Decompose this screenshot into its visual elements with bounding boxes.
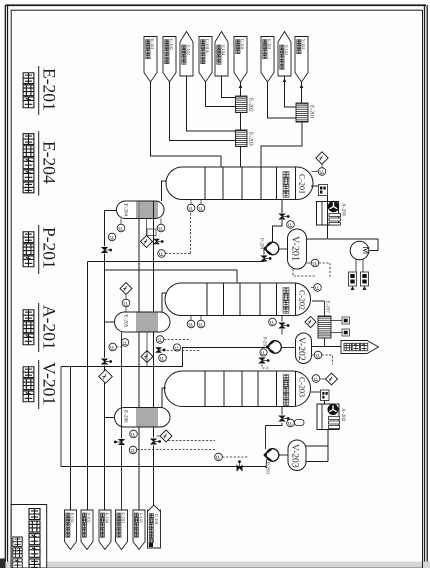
svg-text:P-203: P-203 [265, 462, 271, 474]
diamond near x104 line [99, 370, 113, 384]
svg-text:C-202: C-202 [298, 290, 307, 310]
page edge strip bottom [0, 559, 430, 569]
valve on x104 line [101, 247, 112, 253]
svg-text:V-103: V-103 [284, 45, 289, 56]
stream tag C-101 (bottom rect) [148, 505, 161, 548]
pump P-202 [262, 337, 296, 354]
reboiler E-206 [115, 408, 170, 428]
svg-text:C-201: C-201 [298, 174, 307, 194]
svg-text:V-201: V-201 [40, 362, 60, 405]
wire hot stream vertical A [138, 201, 140, 548]
instrument bubble under diamond [122, 299, 130, 312]
diamond assembly bottom [129, 430, 249, 461]
valve above P-201 [279, 214, 290, 220]
C-203 bottom valve [266, 407, 305, 450]
air cooler A-201 [317, 201, 347, 225]
valve bottom tag7 [150, 439, 161, 445]
wire tag6 to E-202 top [239, 82, 243, 96]
svg-text:E-205: E-205 [123, 315, 129, 328]
svg-text:C-101A: C-101A [205, 39, 210, 54]
wire E-204 return to C-201 [162, 181, 167, 201]
compressor M [350, 241, 371, 260]
wire E-205 inlet left [105, 321, 115, 323]
svg-text:V-104: V-104 [221, 45, 226, 56]
valve on x154 line [0, 0, 1, 1]
stream tag E-101 (top, tip down) [144, 37, 157, 83]
wire tag9 to E-201 top [300, 82, 304, 103]
svg-text:E-202: E-202 [248, 98, 254, 112]
equipment list entry E-201 [23, 66, 59, 115]
column C-203 [165, 371, 311, 407]
svg-text:C-101: C-101 [240, 39, 245, 50]
wire tag3 to E-203 upper [187, 76, 236, 131]
stream tag S-102 (bottom) [81, 510, 93, 550]
exchanger E-201 [296, 103, 315, 122]
air cooler A-202 [317, 404, 346, 430]
diamond at C-202 overhead [305, 316, 316, 327]
wire x133 to tag [0, 0, 1, 1]
exchanger E-203 [236, 130, 254, 147]
svg-text:E-206: E-206 [123, 410, 129, 423]
wire tag2 to E-203 [170, 82, 236, 141]
svg-text:C-203: C-203 [298, 377, 307, 397]
instrument circle near P-202 [260, 349, 267, 356]
svg-text:V-105: V-105 [138, 513, 143, 524]
wire tag4 to E-202 lower [206, 82, 236, 107]
dashed mid1 [158, 213, 191, 258]
instrument bubbles under E-204 [117, 219, 165, 236]
svg-text:V-202: V-202 [296, 337, 307, 361]
stream tag V-104 (top, tip up) [215, 32, 228, 77]
stream tag V-101 (top, tip up) [180, 32, 193, 77]
wire C-202 feed line [105, 270, 238, 283]
svg-text:E-204: E-204 [40, 141, 60, 184]
stream tag V-101 (top, tip down) [295, 37, 308, 83]
wire tag1 to C-201 top [151, 82, 222, 167]
C-202 bottoms valve [269, 316, 290, 335]
wire bottom tag6 [0, 0, 1, 1]
instrument near C-203 left [156, 336, 190, 344]
wire pump P-201 discharge long line [88, 262, 265, 511]
reflux drum V-203 [288, 440, 306, 471]
wire E-206 return to C-203 [162, 388, 166, 408]
svg-text:E-101: E-101 [70, 513, 75, 524]
title text unit name [29, 509, 40, 570]
column C-201 label [283, 167, 306, 200]
svg-text:C-101: C-101 [154, 514, 159, 525]
svg-text:A-201: A-201 [40, 305, 60, 350]
V-202 level bubble [312, 351, 333, 364]
instrument bubble at C-201 cap [312, 168, 326, 176]
instrument bubble left of E-204 [108, 233, 116, 241]
M utility tag left [349, 260, 357, 291]
stream tag E-101 (bottom) [65, 510, 77, 550]
instrument bubbles under C-201 [187, 200, 205, 212]
V-201 level bubble [307, 259, 331, 277]
svg-text:V-201: V-201 [290, 236, 301, 261]
wire utility vertical to tag [104, 211, 106, 511]
wire P-203 discharge long line [61, 367, 266, 467]
stream tag V-103 (top, tip up) [278, 32, 291, 77]
wire E-201 bottom to C-201 top [261, 122, 302, 167]
reflux drum V-202 [296, 333, 312, 364]
wire V-203 right line [306, 445, 328, 447]
pump P-201 [259, 238, 288, 255]
stream tag C-101 (bottom) [116, 510, 128, 550]
stream tag V-105 (bottom) [133, 510, 145, 550]
wire E-202 to E-203 to C-201 [240, 113, 242, 168]
column C-201 [166, 167, 313, 200]
column C-202 label [283, 283, 306, 316]
instrument bubbles under C-202 [187, 316, 205, 328]
diamond left of C-202 [120, 283, 132, 300]
equipment list entry E-204 [23, 131, 59, 196]
svg-text:P-202: P-202 [262, 337, 268, 349]
valve x104 lower [101, 359, 112, 365]
valve on P-203 line [237, 460, 243, 471]
title text author [13, 537, 22, 568]
wire C-201 bottoms to P-201 [273, 200, 283, 243]
wire tag7 to E-201 lower [268, 82, 297, 118]
svg-text:E-101: E-101 [267, 39, 272, 50]
diamond above C-201 cap [316, 152, 328, 168]
equipment list entry V-201 [23, 360, 59, 409]
wire P-202 discharge to left [61, 344, 269, 510]
wire E-204 inlet left [105, 210, 117, 212]
wire P-201 discharge w/ valve [263, 249, 265, 263]
diamond assembly mid1 [141, 219, 164, 248]
wire E-206 inlet left [105, 417, 115, 419]
wire A-201 to V-201 [307, 196, 328, 239]
svg-text:C-102: C-102 [169, 39, 174, 50]
reboiler E-204 [117, 201, 164, 219]
diamond at C-203 cap [320, 373, 338, 385]
svg-text:V-203: V-203 [290, 444, 301, 468]
exchanger E-202 [236, 96, 254, 113]
hatched exchanger at C-202 overhead [312, 301, 331, 347]
svg-text:A-202: A-202 [340, 408, 346, 422]
svg-text:E-101: E-101 [150, 39, 155, 50]
column C-203 label [283, 371, 306, 407]
wire C-201 overhead to A-201 [311, 185, 328, 196]
stream tag C-101A (top, tip down) [199, 37, 212, 83]
V-201 bottom dashed [293, 269, 315, 276]
svg-text:E-104: E-104 [104, 513, 109, 524]
svg-text:E-201: E-201 [40, 68, 60, 111]
M utility tag right [361, 260, 369, 291]
instrument bubble at C-203 cap [312, 375, 320, 383]
svg-text:P-201: P-201 [40, 227, 60, 269]
svg-text:E-201: E-201 [309, 105, 315, 119]
exchanger side tags [331, 317, 350, 336]
svg-text:C-101: C-101 [121, 513, 126, 524]
reboiler E-205 [115, 312, 171, 332]
wire hot stream vertical B [153, 201, 155, 505]
instrument bubble near valve [287, 221, 295, 229]
title block box [11, 505, 47, 569]
svg-text:A-201: A-201 [341, 203, 347, 217]
flare tag [312, 341, 379, 354]
instrument bubble x114 [109, 339, 129, 351]
stream tag C-101 (top, tip down) [234, 37, 247, 83]
equipment list entry P-201 [23, 225, 59, 274]
wire P-203 discharge [265, 460, 268, 469]
wire tag5 to E-202 upper [222, 76, 236, 98]
stream tag C-102 (top, tip down) [163, 37, 176, 83]
svg-text:M: M [361, 247, 371, 255]
stream tag E-104 (bottom) [99, 510, 111, 550]
stream tag E-101 (top, tip down) [261, 37, 274, 83]
equipment list entry A-201 [23, 303, 59, 352]
svg-text:S-102: S-102 [86, 513, 91, 523]
valve under P-202 [259, 348, 270, 369]
wire A-202 to V-203 [307, 401, 329, 462]
valve P-201 discharge [261, 256, 272, 262]
svg-text:E-207: E-207 [325, 301, 331, 314]
wire A-201 branch to M [328, 239, 378, 251]
wire C-203 overhead to A-202 [311, 390, 329, 401]
reflux drum V-201 [288, 229, 307, 269]
pump P-203 [264, 449, 288, 475]
svg-text:E-203: E-203 [248, 132, 254, 146]
wire tag8 to E-201 upper [283, 76, 296, 107]
svg-text:E-204: E-204 [123, 204, 129, 217]
svg-text:V-101: V-101 [301, 39, 306, 50]
valve bottom x122 [114, 332, 125, 510]
svg-text:V-101: V-101 [186, 45, 191, 56]
diamond assembly mid2 [141, 333, 200, 367]
column C-202 [165, 283, 311, 316]
instrument bubble at C-202 cap [311, 284, 321, 292]
wire E-205 return to C-202 [162, 293, 167, 312]
